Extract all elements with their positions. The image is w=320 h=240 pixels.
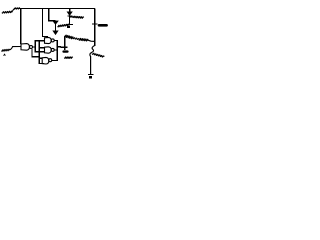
resistor R1 (top-left input squiggle)	[2, 9, 14, 13]
ground G1	[67, 24, 74, 26]
wire U1d lower input	[39, 63, 44, 65]
resistor R3 (squiggle right of D2)	[70, 16, 84, 18]
gate U1d	[42, 57, 49, 64]
stray tick mark	[4, 54, 6, 56]
U1b output wire	[54, 39, 57, 41]
U1c output wire	[54, 49, 57, 51]
resistor R4 (side squiggle)	[92, 53, 104, 57]
wire v1 bus	[34, 40, 36, 52]
resistor R6 (bottom squiggle)	[64, 57, 72, 58]
wire top supply rail	[14, 8, 95, 10]
wire right drop from rail	[94, 9, 96, 47]
wire inverter output link	[33, 46, 35, 48]
wire v0	[32, 49, 39, 57]
resistor R2 (mid squiggle)	[58, 24, 69, 27]
U1d output wire	[52, 59, 57, 61]
cathode bar D2	[67, 15, 72, 17]
gate U1a (inverter)	[21, 44, 29, 51]
capacitor C2 (cross / plus)	[64, 37, 66, 50]
wire output node vertical	[56, 40, 58, 61]
arrow into gate output node	[53, 31, 58, 35]
diode D2 from rail	[69, 9, 71, 13]
resistor R7 (left input squiggle)	[2, 47, 22, 52]
capacitor C1 thick plate	[99, 24, 107, 27]
wire wavy section right	[90, 46, 95, 75]
diode D1 (vertical, anode top)	[53, 21, 58, 25]
output node wire to C2	[57, 46, 61, 48]
resistor R5 (long squiggle to C2 node)	[65, 35, 73, 39]
capacitor C2 thick plate	[64, 50, 68, 52]
wire U1d upper input stub	[39, 57, 42, 59]
wire drop C	[49, 9, 56, 21]
gate U1c	[45, 47, 52, 53]
wire v2 bus	[38, 41, 40, 64]
capacitor C1 plate	[92, 23, 98, 25]
wire h U1c lower input	[35, 51, 45, 53]
ground G2	[88, 74, 94, 76]
wire drop B to gate U1b input	[43, 9, 48, 39]
gate U1b	[45, 37, 52, 43]
wire drop A to gate U1a	[20, 9, 22, 44]
wire h U1c upper input	[39, 47, 44, 49]
wire h U1b lower input	[35, 40, 45, 42]
